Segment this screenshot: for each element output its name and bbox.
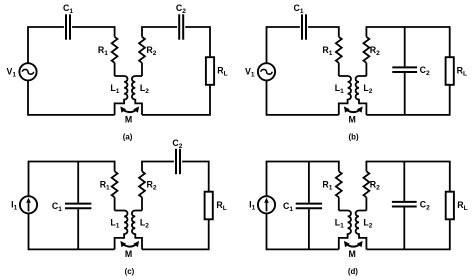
capacitor C2 (series) <box>176 149 180 174</box>
resistor RL (load) <box>206 57 214 85</box>
wire: source bottom lead and primary bottom rail <box>267 213 339 249</box>
label I1 <box>11 199 17 211</box>
current source I1 <box>258 196 275 213</box>
label (d) <box>348 267 358 276</box>
label (c) <box>125 267 135 276</box>
capacitor C1 (series) <box>66 14 70 39</box>
svg-text:R1: R1 <box>322 179 332 191</box>
inductor L1 (primary winding) <box>339 76 351 115</box>
wire: R1 bottom lead <box>114 63 116 76</box>
svg-text:RL: RL <box>216 200 226 212</box>
wire: R2 top, secondary top rail to RL <box>366 27 449 57</box>
wire: source bottom lead and primary bottom rail <box>29 213 115 249</box>
resistor R2 <box>364 171 370 197</box>
svg-text:R2: R2 <box>370 179 380 191</box>
inductor L1 (primary winding) <box>339 211 351 250</box>
inductor L2 (secondary winding) <box>132 211 142 250</box>
label R1 <box>98 45 108 57</box>
resistor RL (load) <box>205 192 213 220</box>
svg-text:C1: C1 <box>63 3 73 15</box>
label L1 <box>335 217 344 229</box>
capacitor C1 (parallel) <box>296 162 322 250</box>
label L1 <box>110 217 119 229</box>
svg-text:V1: V1 <box>245 66 255 78</box>
svg-text:(a): (a) <box>123 133 133 142</box>
svg-text:C2: C2 <box>176 3 186 15</box>
resistor RL (load) <box>446 57 454 85</box>
svg-text:L1: L1 <box>110 83 119 95</box>
label C2 <box>172 138 182 150</box>
svg-text:R2: R2 <box>370 45 380 57</box>
wire: R1 bottom lead <box>114 197 116 210</box>
label RL <box>457 200 467 212</box>
label L1 <box>335 83 344 95</box>
svg-text:C1: C1 <box>294 3 304 15</box>
label R2 <box>146 45 156 57</box>
label C2 <box>420 199 430 211</box>
label M <box>349 115 356 125</box>
svg-text:M: M <box>349 115 356 125</box>
mutual inductance coupling arrow M <box>344 241 363 247</box>
label C1 <box>283 201 293 213</box>
label C1 <box>294 3 304 15</box>
svg-text:L2: L2 <box>140 217 149 229</box>
wire: R2 bottom lead <box>365 63 367 76</box>
label M <box>125 115 132 125</box>
resistor R1 <box>336 171 342 197</box>
label RL <box>457 65 467 77</box>
svg-text:C2: C2 <box>420 199 430 211</box>
svg-text:R1: R1 <box>98 45 108 57</box>
svg-text:(b): (b) <box>349 133 359 142</box>
label V1 <box>245 66 255 78</box>
svg-text:L2: L2 <box>140 83 149 95</box>
wire: RL bottom lead and secondary bottom rail <box>142 219 209 249</box>
wire: C2 to RL top <box>185 27 210 57</box>
label L2 <box>363 83 372 95</box>
svg-text:C2: C2 <box>172 138 182 150</box>
resistor R1 <box>112 171 118 197</box>
label C2 <box>176 3 186 15</box>
capacitor C2 (parallel) <box>392 162 417 250</box>
label L2 <box>140 217 149 229</box>
label R1 <box>322 45 332 57</box>
label R2 <box>370 179 380 191</box>
svg-text:C1: C1 <box>283 201 293 213</box>
svg-text:L1: L1 <box>110 217 119 229</box>
label L2 <box>363 217 372 229</box>
svg-text:RL: RL <box>457 65 467 77</box>
wire: C1 to R1 top <box>72 27 115 37</box>
inductor L2 (secondary winding) <box>132 76 142 115</box>
label C2 <box>420 65 430 77</box>
capacitor C1 (parallel) <box>65 162 91 250</box>
label R1 <box>100 179 110 191</box>
wire: source bottom lead and primary bottom rail <box>28 80 115 115</box>
resistor R1 <box>336 37 342 63</box>
wire: R2 top, secondary top rail to RL <box>366 162 449 192</box>
resistor R1 <box>112 37 118 63</box>
wire: RL bottom lead and secondary bottom rail <box>366 219 449 249</box>
svg-text:L2: L2 <box>363 217 372 229</box>
wire: R2 top to C2 <box>142 27 177 37</box>
svg-text:RL: RL <box>457 200 467 212</box>
wire: R2 bottom lead <box>141 197 143 210</box>
voltage source V1 <box>19 63 36 80</box>
svg-text:M: M <box>125 115 132 125</box>
svg-text:R2: R2 <box>146 45 156 57</box>
wire: R1 bottom lead <box>338 197 340 210</box>
inductor L2 (secondary winding) <box>356 211 367 250</box>
svg-text:V1: V1 <box>6 66 16 78</box>
resistor RL (load) <box>446 192 454 220</box>
svg-text:(c): (c) <box>125 267 135 276</box>
capacitor C1 (series) <box>302 14 306 39</box>
label C1 <box>52 201 62 213</box>
label C1 <box>63 3 73 15</box>
svg-text:C1: C1 <box>52 201 62 213</box>
inductor L1 (primary winding) <box>115 76 128 115</box>
resistor R2 <box>364 37 370 63</box>
wire: RL bottom lead and secondary bottom rail <box>366 85 449 115</box>
label RL <box>217 65 227 77</box>
inductor L2 (secondary winding) <box>356 76 367 115</box>
wire: R2 top to C2 <box>142 162 174 172</box>
svg-text:M: M <box>125 249 132 259</box>
svg-text:I1: I1 <box>11 199 17 211</box>
svg-text:R1: R1 <box>322 45 332 57</box>
svg-text:L1: L1 <box>335 83 344 95</box>
wire: R2 bottom lead <box>365 197 367 210</box>
capacitor C2 (parallel) <box>392 27 417 115</box>
wire: C1 to R1 top <box>308 27 339 37</box>
wire: RL bottom lead and secondary bottom rail <box>142 85 210 115</box>
svg-text:I1: I1 <box>249 199 255 211</box>
wire: source top lead to C1 <box>28 27 64 63</box>
label L1 <box>110 83 119 95</box>
current source I1 <box>20 196 37 213</box>
wire: R2 bottom lead <box>141 63 143 76</box>
mutual inductance coupling arrow M <box>120 106 139 112</box>
resistor R2 <box>139 171 145 197</box>
svg-text:L1: L1 <box>335 217 344 229</box>
wire: source top lead to C1 <box>267 27 300 63</box>
label (b) <box>349 133 359 142</box>
svg-text:L2: L2 <box>363 83 372 95</box>
inductor L1 (primary winding) <box>115 211 128 250</box>
svg-text:R1: R1 <box>100 179 110 191</box>
label V1 <box>6 66 16 78</box>
wire: source bottom lead and primary bottom rail <box>267 80 339 115</box>
svg-text:R2: R2 <box>147 179 157 191</box>
label R2 <box>147 179 157 191</box>
wire: source top lead, top rail to R1 <box>267 162 339 197</box>
svg-text:(d): (d) <box>348 267 358 276</box>
mutual inductance coupling arrow M <box>120 241 139 247</box>
label (a) <box>123 133 133 142</box>
label RL <box>216 200 226 212</box>
svg-text:C2: C2 <box>420 65 430 77</box>
mutual inductance coupling arrow M <box>344 106 363 112</box>
label I1 <box>249 199 255 211</box>
capacitor C2 (series) <box>179 14 183 39</box>
svg-text:M: M <box>349 249 356 259</box>
resistor R2 <box>139 37 145 63</box>
label R2 <box>370 45 380 57</box>
label M <box>349 249 356 259</box>
wire: source top lead, top rail to R1 <box>29 162 115 197</box>
svg-text:RL: RL <box>217 65 227 77</box>
voltage source V1 <box>258 63 275 80</box>
wire: C2 to RL top <box>182 162 209 192</box>
label M <box>125 249 132 259</box>
label L2 <box>140 83 149 95</box>
wire: R1 bottom lead <box>338 63 340 76</box>
label R1 <box>322 179 332 191</box>
